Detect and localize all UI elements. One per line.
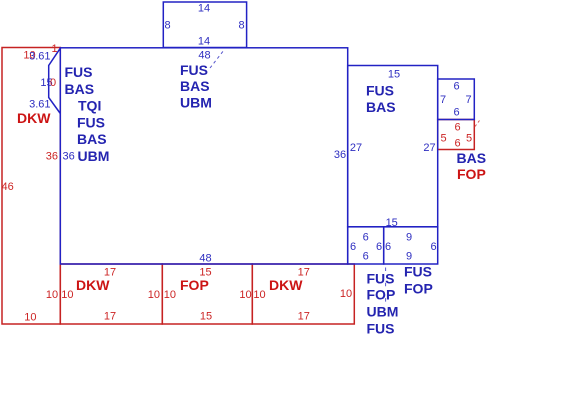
svg-text:6: 6 [385,241,391,253]
svg-text:UBM: UBM [78,148,110,164]
svg-text:1: 1 [51,43,57,55]
svg-text:FUS: FUS [367,321,395,337]
svg-text:7: 7 [440,94,446,106]
svg-text:TQI: TQI [78,98,101,114]
chamfer bay polyline on left wall [49,48,61,113]
svg-text:36: 36 [334,149,346,161]
svg-text:27: 27 [350,142,362,154]
svg-text:10: 10 [340,288,352,300]
svg-text:27: 27 [423,142,435,154]
svg-text:48: 48 [199,253,211,265]
svg-text:10: 10 [164,289,176,301]
svg-text:FOP: FOP [457,166,486,182]
svg-text:48: 48 [198,50,210,62]
svg-text:6: 6 [376,241,382,253]
svg-text:10: 10 [148,289,160,301]
svg-text:10: 10 [61,289,73,301]
main dwelling rect [60,48,347,264]
svg-text:5: 5 [466,133,472,145]
right small red FOP rect [438,120,475,150]
svg-text:3.61: 3.61 [29,51,50,63]
svg-text:6: 6 [363,232,369,244]
dashed red leader at right [475,121,480,127]
svg-text:9: 9 [406,251,412,263]
svg-text:15: 15 [200,311,212,323]
bottom red porch FOP rect 2 [162,264,252,324]
svg-text:10: 10 [253,289,265,301]
small rect B 9x6 [384,227,438,264]
svg-text:14: 14 [198,36,210,48]
bottom red porch DKW rect 3 [252,264,354,324]
top small blue rect 14x8 [163,2,246,48]
left red area DKW outline [2,48,60,325]
svg-text:5: 5 [440,133,446,145]
svg-text:9: 9 [406,232,412,244]
svg-text:10: 10 [24,312,36,324]
svg-text:FOP: FOP [180,277,209,293]
svg-text:6: 6 [350,241,356,253]
svg-text:36: 36 [63,151,75,163]
svg-text:6: 6 [454,121,460,133]
svg-text:14: 14 [198,3,210,15]
svg-text:FUS: FUS [367,271,395,287]
svg-text:BAS: BAS [77,131,107,147]
dashed blue leader at top center [210,50,224,68]
dashed projection line below rect B divider [385,268,387,303]
svg-text:FUS: FUS [77,114,105,130]
right wing rect 15x27 [348,66,438,227]
top-right small blue rect 6x7 [438,79,475,120]
svg-text:BAS: BAS [366,99,396,115]
svg-text:10: 10 [46,289,58,301]
svg-text:15: 15 [388,69,400,81]
svg-text:FUS: FUS [65,64,93,80]
svg-text:BAS: BAS [65,81,95,97]
svg-text:DKW: DKW [17,110,51,126]
svg-text:FUS: FUS [180,62,208,78]
svg-text:FOP: FOP [404,281,433,297]
svg-text:6: 6 [453,81,459,93]
small rect A 6x6 [348,227,384,264]
svg-text:DKW: DKW [269,277,303,293]
svg-text:FUS: FUS [404,264,432,280]
svg-text:17: 17 [104,311,116,323]
svg-text:6: 6 [430,241,436,253]
svg-text:10: 10 [239,289,251,301]
svg-text:3.61: 3.61 [29,99,50,111]
svg-text:FUS: FUS [366,83,394,99]
svg-text:FOP: FOP [367,287,396,303]
bottom red porch DKW rect 1 [60,264,162,324]
svg-text:BAS: BAS [457,150,487,166]
svg-text:8: 8 [164,20,170,32]
svg-text:BAS: BAS [180,78,210,94]
svg-text:8: 8 [238,20,244,32]
svg-text:17: 17 [298,311,310,323]
svg-text:6: 6 [363,251,369,263]
svg-text:UBM: UBM [180,94,212,110]
svg-text:UBM: UBM [367,304,399,320]
svg-text:6: 6 [453,107,459,119]
svg-text:6: 6 [454,138,460,150]
svg-text:7: 7 [465,94,471,106]
svg-text:36: 36 [46,151,58,163]
svg-text:46: 46 [2,181,14,193]
svg-text:DKW: DKW [76,277,110,293]
svg-text:15: 15 [386,217,398,229]
svg-text:0: 0 [50,77,56,89]
